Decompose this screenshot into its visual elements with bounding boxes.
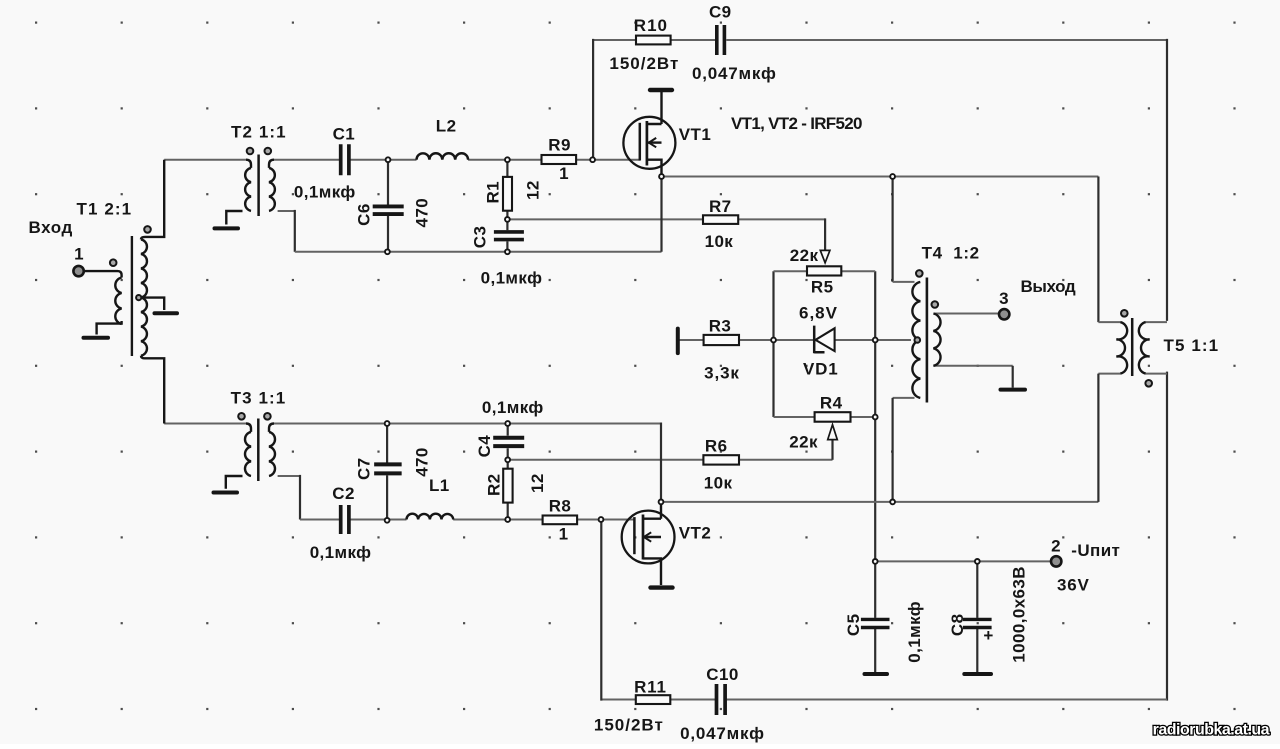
node C8 junction: [975, 559, 980, 564]
transformer T4 secondary: [933, 314, 940, 366]
wire VT1 source to right: [662, 176, 1099, 178]
resistor R4 trimmer: [815, 412, 851, 422]
wire C8 lower: [976, 629, 978, 673]
wire T5 right side stubs: [1146, 322, 1167, 374]
svg-text:C10: C10: [706, 665, 738, 684]
wire C8 upper: [976, 561, 978, 618]
resistor R10: [636, 36, 671, 45]
svg-text:R5: R5: [811, 278, 834, 297]
node 3 output terminal: [999, 309, 1009, 319]
wire T4 secondary top to node 3: [934, 313, 999, 315]
capacitor C1: [341, 144, 349, 175]
svg-text:Т2 1:1: Т2 1:1: [231, 123, 287, 142]
T1 phase dot secondary: [144, 226, 151, 233]
node R4 right: [873, 415, 878, 420]
transistor VT1: [623, 90, 675, 177]
svg-text:0,1мкф: 0,1мкф: [481, 269, 543, 288]
wire T2 to C1: [274, 159, 339, 161]
node C4 top: [505, 421, 510, 426]
svg-text:1000,0х63В: 1000,0х63В: [1009, 566, 1028, 663]
wire C7 hang: [386, 424, 388, 521]
transformer T5 right winding: [1139, 322, 1150, 374]
wire C2 to L1: [351, 519, 407, 521]
svg-text:12: 12: [524, 180, 543, 200]
svg-text:VT1: VT1: [679, 125, 712, 144]
VT2 source chassis bar: [651, 585, 673, 589]
resistor R5 trimmer: [807, 266, 841, 275]
svg-text:3: 3: [999, 289, 1009, 308]
svg-text:C4: C4: [475, 435, 494, 458]
wire VT2 drain to right: [661, 501, 1098, 503]
wire C5 lower: [874, 629, 876, 673]
svg-text:C3: C3: [470, 226, 489, 249]
wire R9 to VT1 gate: [576, 159, 640, 161]
wire node to R1: [506, 160, 508, 177]
transformer T2 secondary: [269, 160, 274, 168]
svg-text:R7: R7: [709, 197, 732, 216]
wire L2 to R9: [468, 159, 541, 161]
resistor R2: [503, 469, 512, 503]
transformer T4: [912, 270, 940, 402]
R4 wiper arrow: [828, 425, 838, 440]
wire return top: [295, 251, 662, 253]
svg-text:C1: C1: [333, 125, 356, 144]
inductor L1: [407, 514, 454, 520]
T4 phase dot secondary: [932, 301, 939, 308]
transformer T3: [214, 413, 276, 493]
resistor R6: [703, 455, 739, 464]
wire right vertical upper: [1166, 39, 1168, 321]
svg-text:0,1мкф: 0,1мкф: [310, 543, 372, 562]
wire T5 left side: [1097, 177, 1099, 323]
node 2 supply terminal: [1051, 556, 1061, 566]
svg-text:VD1: VD1: [803, 360, 838, 379]
wire bottom rail left vertical: [600, 520, 602, 701]
wire VD1 right: [835, 339, 876, 341]
node C5 junction: [873, 559, 878, 564]
wire top rail: [593, 39, 1167, 41]
wire T3 secondary bottom jog: [278, 475, 300, 477]
transistor VT2: [622, 502, 675, 588]
wire T3 secondary top return: [274, 423, 661, 425]
svg-text:470: 470: [413, 198, 432, 228]
svg-text:C6: C6: [355, 203, 374, 226]
transformer T2: [215, 148, 275, 229]
svg-text:-Uпит: -Uпит: [1071, 541, 1120, 560]
svg-text:1: 1: [74, 245, 84, 264]
wire C1 to L2: [351, 159, 417, 161]
node C1-C6-L2: [386, 157, 391, 162]
svg-text:150/2Вт: 150/2Вт: [594, 716, 664, 735]
svg-text:0,1мкф: 0,1мкф: [294, 183, 356, 202]
svg-text:C9: C9: [709, 3, 732, 22]
node C7 top: [385, 421, 390, 426]
wire T4 primary feed: [891, 177, 893, 282]
R5 wiper arrow: [820, 250, 830, 262]
capacitor C7: [374, 464, 402, 473]
svg-text:3,3к: 3,3к: [704, 364, 740, 383]
svg-text:0,1мкф: 0,1мкф: [905, 601, 924, 663]
wire R7 right to R5 wiper: [738, 218, 825, 220]
svg-text:L1: L1: [429, 476, 450, 495]
C8 end bar: [964, 672, 991, 676]
svg-text:radiorubka.at.ua: radiorubka.at.ua: [1153, 722, 1270, 739]
svg-text:0,1мкф: 0,1мкф: [482, 398, 544, 417]
node C4-R2-R6: [505, 457, 510, 462]
wire C4 chain: [507, 424, 509, 520]
transformer T3 secondary: [269, 424, 274, 432]
capacitor C10: [717, 684, 726, 715]
node VD1 right: [873, 338, 878, 343]
capacitor C8: [963, 619, 992, 627]
ground T1 primary: [84, 336, 109, 340]
svg-text:36V: 36V: [1057, 576, 1090, 595]
capacitor C4: [493, 438, 524, 446]
svg-text:6,8V: 6,8V: [799, 304, 838, 323]
svg-text:R2: R2: [485, 473, 504, 496]
node VT1 source: [659, 174, 664, 179]
svg-text:Т1 2:1: Т1 2:1: [77, 200, 133, 219]
resistor R3: [704, 335, 739, 345]
resistor R8: [543, 516, 578, 525]
wire right vertical lower: [1166, 372, 1168, 701]
node VT2 gate: [599, 517, 604, 522]
resistor R9: [542, 155, 577, 164]
wire input line T2: [164, 159, 246, 161]
node R1-C3-R7: [505, 217, 510, 222]
wire C5 feed: [874, 561, 876, 618]
T1 phase dot primary: [110, 259, 117, 266]
svg-text:C7: C7: [354, 457, 373, 480]
wire gate drop VT1: [592, 39, 594, 160]
svg-text:2: 2: [1051, 537, 1061, 556]
svg-text:R1: R1: [484, 181, 503, 204]
T2 phase dots: [247, 148, 254, 155]
svg-text:R8: R8: [549, 497, 572, 516]
transformer T4 core: [926, 278, 929, 403]
node drain rail: [890, 174, 895, 179]
svg-text:1: 1: [559, 164, 569, 183]
node R2 bottom: [505, 517, 510, 522]
svg-text:R9: R9: [548, 136, 571, 155]
wire input line T3: [164, 423, 246, 425]
svg-text:Вход: Вход: [29, 218, 73, 237]
transformer T3 core: [257, 419, 260, 482]
svg-text:Т3 1:1: Т3 1:1: [231, 389, 287, 408]
inductor L2: [417, 153, 469, 159]
capacitor C2: [341, 505, 349, 534]
svg-text:R3: R3: [709, 317, 732, 336]
wire R3 terminal to R3: [679, 339, 704, 341]
wire R6 left: [508, 459, 704, 461]
svg-text:+: +: [983, 626, 993, 645]
R3 terminal bar: [676, 329, 680, 354]
T3 phase dots: [238, 413, 245, 420]
wire T1 center tap: [141, 298, 164, 310]
VT1 drain chassis bar: [650, 88, 672, 92]
resistor R1: [503, 177, 512, 211]
svg-text:22к: 22к: [789, 433, 818, 452]
svg-text:10к: 10к: [704, 474, 733, 493]
svg-text:VT2: VT2: [679, 524, 712, 543]
capacitor C9: [717, 25, 725, 55]
svg-text:0,047мкф: 0,047мкф: [680, 724, 765, 743]
wire T4 primary bottom: [893, 397, 915, 399]
ground T2 primary: [215, 226, 239, 230]
wire L1 to R8: [453, 519, 542, 521]
ground T4 secondary: [1001, 388, 1026, 392]
wire T2 secondary bottom jog: [278, 210, 295, 212]
svg-text:C2: C2: [332, 484, 355, 503]
transformer T5: [1116, 310, 1152, 387]
capacitor C6: [373, 206, 404, 214]
wire VT1 source down: [660, 177, 662, 252]
wire VD1 left: [774, 339, 814, 341]
transformer T2 core: [257, 155, 260, 217]
svg-text:R4: R4: [820, 394, 843, 413]
ground T3 primary: [214, 491, 238, 495]
svg-text:1: 1: [559, 525, 569, 544]
node VT2 drain: [659, 500, 664, 505]
svg-text:VT1, VT2 - IRF520: VT1, VT2 - IRF520: [731, 114, 862, 133]
T4 phase dot primary: [916, 270, 923, 277]
svg-text:22к: 22к: [790, 246, 819, 265]
svg-text:10к: 10к: [705, 232, 734, 251]
transformer T5 core: [1131, 318, 1134, 376]
node C6 bottom: [385, 249, 390, 254]
transformer T1 secondary: [141, 239, 147, 355]
capacitor C3: [494, 232, 524, 240]
svg-text:C8: C8: [948, 614, 967, 637]
svg-text:R10: R10: [634, 16, 668, 35]
svg-text:C5: C5: [844, 614, 863, 637]
wire T4 secondary bottom to ground: [933, 365, 1012, 367]
resistor R11: [636, 695, 671, 704]
node VT1 gate: [590, 157, 595, 162]
T1 tap dot: [136, 295, 141, 300]
svg-text:R11: R11: [634, 678, 667, 697]
svg-text:Выход: Выход: [1021, 277, 1076, 296]
transformer T1: [84, 160, 178, 424]
wire R7 left: [507, 218, 703, 220]
wire R1 to C3: [506, 211, 508, 231]
svg-text:Т5 1:1: Т5 1:1: [1164, 336, 1220, 355]
resistor R7: [703, 215, 738, 224]
node VD1 left: [771, 338, 776, 343]
svg-text:R6: R6: [705, 437, 728, 456]
wire T3 jog to C2: [300, 519, 339, 521]
capacitor C5: [861, 619, 890, 627]
wire R4 row: [774, 416, 876, 418]
wire C6 hang: [387, 160, 389, 252]
svg-text:Т4 1:2: Т4 1:2: [922, 244, 980, 263]
ground T1 center tap: [155, 311, 178, 315]
svg-text:L2: L2: [436, 117, 457, 136]
svg-text:12: 12: [528, 473, 547, 493]
svg-text:0,047мкф: 0,047мкф: [692, 64, 777, 83]
node 1 input terminal: [73, 266, 83, 276]
wire C3 to return: [506, 241, 508, 251]
wire R3 to VD1 node: [739, 339, 774, 341]
svg-text:150/2Вт: 150/2Вт: [609, 54, 679, 73]
T4 tap dot: [915, 337, 921, 343]
node C3 bottom: [505, 249, 510, 254]
wire R6 right to R4 wiper: [739, 459, 833, 461]
wire loop left vertical: [772, 271, 774, 417]
wire R8 to VT2 gate: [577, 519, 634, 521]
node R1 top: [505, 157, 510, 162]
wire to T4 tap: [875, 339, 911, 341]
node C7 bottom: [385, 518, 390, 523]
C5 end bar: [865, 672, 888, 676]
T5 phase dots: [1121, 310, 1128, 317]
zener diode VD1: [814, 326, 834, 354]
svg-text:470: 470: [412, 447, 431, 477]
wire loop right vertical: [874, 271, 876, 561]
node rail junction: [890, 500, 895, 505]
transformer T1 core: [131, 236, 133, 356]
wire R5 row: [774, 270, 876, 272]
wire to C8 and node 2: [875, 560, 1051, 562]
wire bottom rail: [601, 699, 1167, 701]
